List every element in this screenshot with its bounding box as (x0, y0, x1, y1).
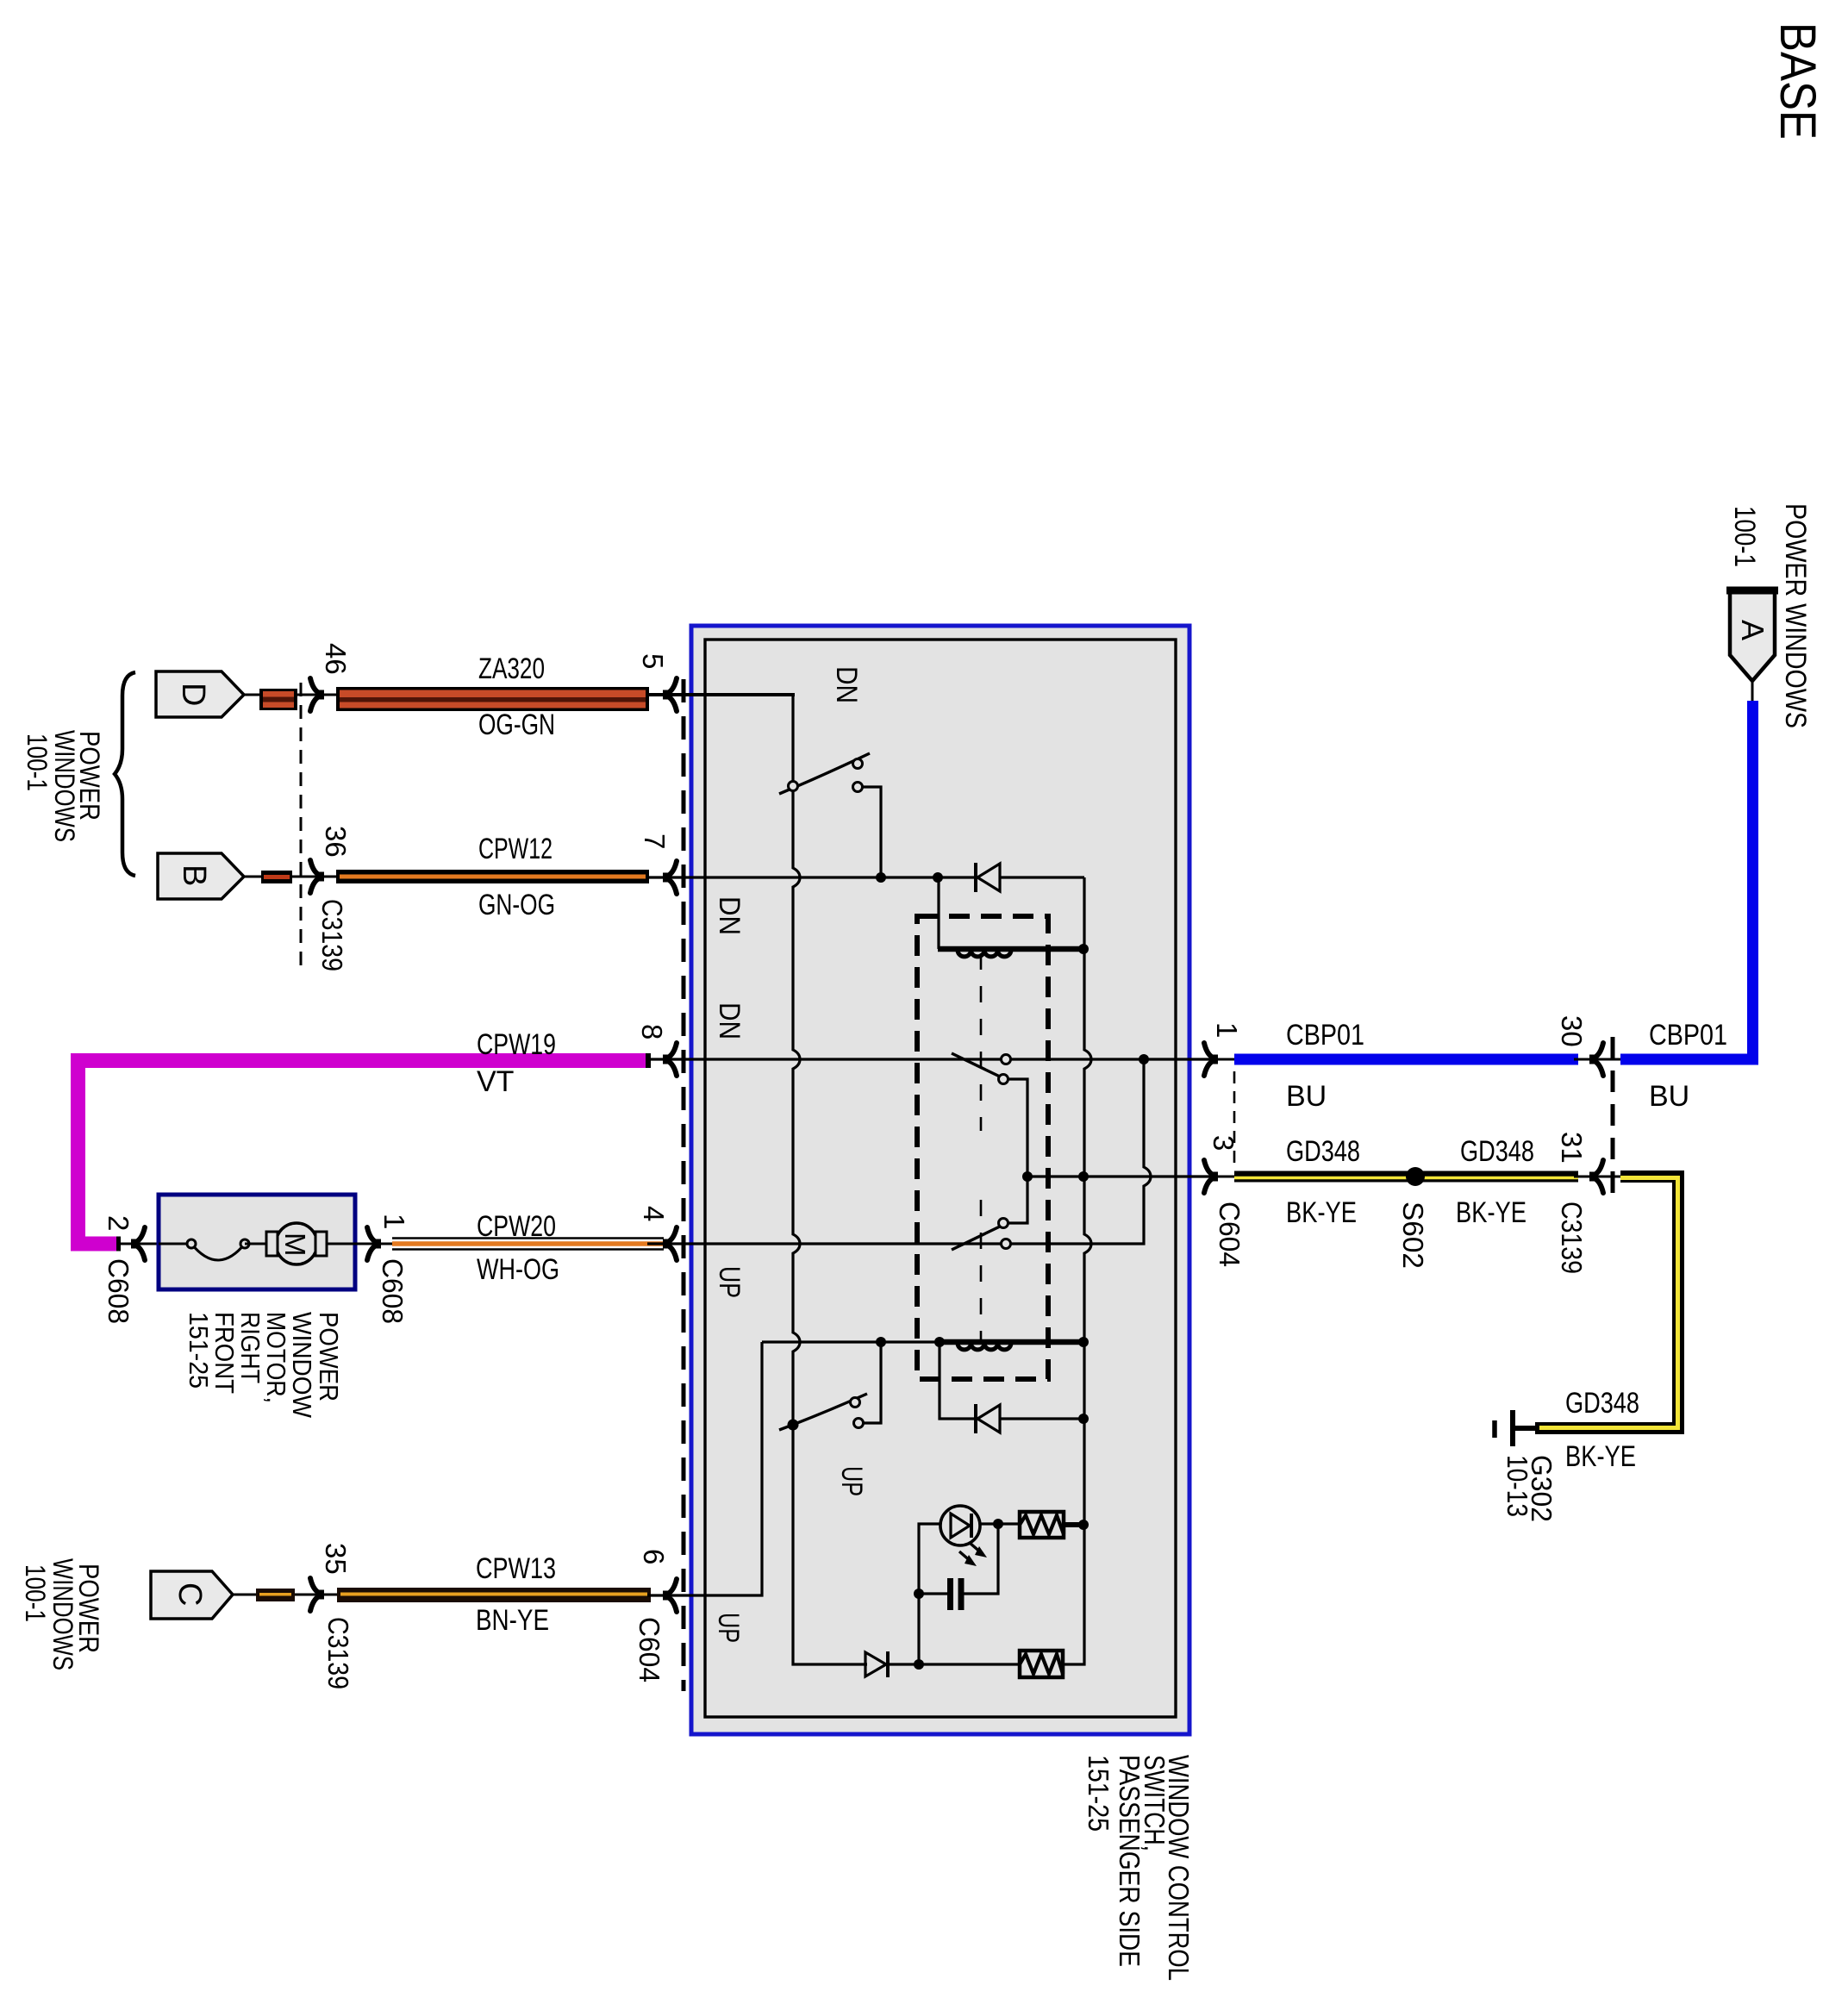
svg-text:30: 30 (1556, 1015, 1588, 1047)
svg-text:CPW19: CPW19 (477, 1028, 556, 1061)
svg-text:C604: C604 (634, 1617, 665, 1682)
svg-text:BK-YE: BK-YE (1286, 1196, 1357, 1229)
wire CPW12 stub at B (244, 876, 336, 878)
main vertical from pin 5 (hops pins 7,8,4,coil row) (793, 693, 800, 1663)
svg-text:4: 4 (638, 1206, 670, 1221)
svg-text:CPW13: CPW13 (476, 1552, 556, 1585)
DN relay flyback diode (977, 865, 1000, 890)
svg-text:A: A (1735, 620, 1770, 640)
svg-text:C604: C604 (1214, 1202, 1246, 1267)
power window motor box (159, 1195, 355, 1289)
wire ZA320 OG-GN (336, 687, 649, 711)
motor M armature (276, 1223, 317, 1264)
pin 6 arrow (663, 1591, 671, 1601)
DN relay changeover blade (952, 1053, 1002, 1077)
connector boundary C604 dashed line (682, 679, 686, 1691)
UP relay flyback diode (940, 1342, 1084, 1419)
svg-text:BU: BU (1286, 1080, 1327, 1113)
svg-text:151-25: 151-25 (1083, 1755, 1114, 1832)
pin 31 arrow (1574, 1176, 1620, 1178)
DN switch contact branch (862, 787, 881, 877)
pin 2 arrow (119, 1243, 164, 1245)
svg-text:35: 35 (320, 1543, 352, 1575)
+12V branch to UP relay contact (1010, 1059, 1151, 1244)
svg-text:DN: DN (830, 666, 863, 703)
pin 36 arrow (315, 872, 324, 882)
svg-text:10-13: 10-13 (1501, 1455, 1533, 1517)
svg-text:1: 1 (378, 1214, 410, 1229)
svg-text:31: 31 (1556, 1132, 1588, 1164)
wire sag arc between terminals (191, 1244, 245, 1260)
connector boundary C3139 dashed (left) (300, 683, 303, 971)
svg-text:C3139: C3139 (1556, 1202, 1588, 1274)
pin 8 wire through box (DN relay contact row) (647, 1058, 1218, 1060)
LED branch vertical (919, 1524, 1020, 1664)
DN manual switch (779, 753, 870, 794)
UP relay coil (938, 1339, 1082, 1345)
wire CPW12 GN-OG (336, 870, 649, 883)
wire CBP01 BU left segment (1234, 1054, 1578, 1065)
right vertical (coil/diode common to ground) (1063, 877, 1091, 1664)
UP manual switch (779, 1394, 867, 1430)
svg-text:C3139: C3139 (316, 899, 348, 971)
illumination row: bottom diode (793, 1663, 1020, 1664)
svg-text:100-1: 100-1 (1728, 506, 1761, 567)
terminal circles (187, 1239, 196, 1248)
wire CPW13 stub at C (233, 1594, 337, 1596)
motor internal wire left (159, 1243, 191, 1245)
svg-text:2: 2 (103, 1215, 134, 1231)
svg-text:GD348: GD348 (1565, 1387, 1639, 1420)
svg-text:CBP01: CBP01 (1286, 1019, 1364, 1052)
pin 7 arrow (663, 873, 671, 883)
wire CPW19 VT (78, 1061, 650, 1245)
svg-text:8: 8 (636, 1024, 668, 1039)
svg-text:C608: C608 (377, 1258, 409, 1324)
pin 46 arrow (315, 690, 324, 700)
DN relay coil (937, 877, 940, 949)
pin 1 arrow (motor) (355, 1243, 392, 1245)
svg-text:36: 36 (320, 826, 352, 858)
svg-text:S602: S602 (1397, 1202, 1429, 1269)
svg-text:D: D (175, 683, 211, 706)
window control switch box outline (691, 626, 1189, 1734)
svg-text:C608: C608 (103, 1258, 134, 1324)
wire CPW13 BN-YE (337, 1588, 651, 1602)
resistor R1 (1020, 1512, 1064, 1538)
svg-text:BN-YE: BN-YE (476, 1604, 549, 1637)
svg-text:GD348: GD348 (1460, 1135, 1534, 1168)
svg-text:ZA320: ZA320 (478, 652, 545, 685)
wire GD348 BK-YE (C3139 to G302) (1535, 1177, 1678, 1428)
pin 5 wire into box (647, 693, 795, 696)
svg-text:CBP01: CBP01 (1649, 1019, 1727, 1052)
ground G302 10-13 (1510, 1426, 1535, 1431)
pin 8 arrow (663, 1055, 671, 1064)
pin 6 wire into box (647, 1342, 762, 1595)
pin 5 arrow (663, 690, 671, 700)
svg-text:BU: BU (1649, 1080, 1689, 1113)
svg-text:GN-OG: GN-OG (478, 889, 555, 921)
connector D (156, 671, 244, 717)
svg-text:6: 6 (638, 1549, 670, 1564)
pin 3 arrow (1177, 1176, 1234, 1178)
svg-text:UP: UP (713, 1266, 746, 1298)
svg-text:7: 7 (639, 833, 671, 849)
relay outline dashed box (917, 916, 1048, 1379)
DN relay armature link (dashed) (980, 953, 983, 1131)
brace for POWER WINDOWS 100-1 (D,B) (115, 672, 135, 876)
connector boundary C3139 dashed (right) (1611, 1037, 1615, 1204)
connector C (151, 1571, 233, 1619)
svg-text:100-1: 100-1 (20, 1564, 51, 1622)
svg-text:46: 46 (320, 643, 352, 675)
connector A (POWER WINDOWS 100-1) (1730, 590, 1775, 681)
svg-text:WINDOWS: WINDOWS (49, 730, 80, 842)
svg-text:C3139: C3139 (322, 1617, 354, 1689)
svg-text:M: M (279, 1233, 311, 1257)
svg-text:VT: VT (477, 1065, 514, 1098)
svg-text:5: 5 (637, 653, 669, 669)
svg-text:151-25: 151-25 (184, 1312, 214, 1389)
svg-text:POWER: POWER (314, 1312, 344, 1401)
svg-text:DN: DN (713, 1002, 746, 1039)
pin 30 arrow (1589, 1055, 1598, 1064)
svg-text:GD348: GD348 (1286, 1135, 1360, 1168)
svg-text:POWER WINDOWS: POWER WINDOWS (1779, 503, 1812, 728)
svg-text:CPW20: CPW20 (477, 1210, 556, 1243)
wire tail from connector A (1751, 681, 1754, 702)
pin 7 wire into box (to DN relay) (647, 876, 1084, 878)
svg-text:C: C (172, 1582, 208, 1606)
svg-text:BK-YE: BK-YE (1456, 1196, 1526, 1229)
connector boundary C604 dashed (right, pins 1-3) (1233, 1071, 1236, 1165)
svg-text:PASSENGER SIDE: PASSENGER SIDE (1114, 1755, 1146, 1967)
svg-text:WH-OG: WH-OG (477, 1253, 559, 1286)
connector B (158, 853, 244, 899)
wire CBP01 BU vertical+right segment (1620, 701, 1753, 1059)
LED indicator (940, 1506, 980, 1545)
pin 4 arrow (663, 1239, 671, 1249)
svg-text:BASE: BASE (1770, 22, 1826, 140)
wire end caps (CPW19) (646, 1053, 651, 1068)
svg-text:BK-YE: BK-YE (1565, 1440, 1636, 1473)
UP relay changeover blade (952, 1226, 1002, 1250)
UP switch contact branch (863, 1342, 881, 1423)
svg-text:CPW12: CPW12 (478, 833, 553, 865)
brushes (266, 1232, 278, 1256)
pin 35 arrow (315, 1590, 324, 1600)
resistor R2 (1020, 1651, 1063, 1677)
svg-text:OG-GN: OG-GN (478, 708, 555, 741)
UP relay armature link (dashed) (980, 1200, 983, 1339)
capacitor C1 (919, 1592, 949, 1595)
UP coil feed row (762, 1340, 1082, 1343)
svg-text:1: 1 (1211, 1022, 1243, 1038)
svg-text:UP: UP (712, 1613, 745, 1643)
pin 4 wire into box (UP relay contact row) (647, 1242, 1006, 1245)
splice S602 (1406, 1167, 1425, 1186)
svg-text:UP: UP (835, 1466, 868, 1496)
wire ZA320 stub at D (244, 694, 336, 696)
svg-text:100-1: 100-1 (22, 733, 53, 791)
svg-text:DN: DN (713, 896, 746, 935)
pin 3 wire inside box (1027, 1175, 1218, 1177)
svg-text:WINDOWS: WINDOWS (47, 1558, 78, 1670)
wire GD348 BK-YE (pin3 to S602 to C3139) (1234, 1171, 1578, 1183)
wire CPW20 WH-OG (392, 1237, 664, 1239)
pin 1 arrow (1177, 1058, 1234, 1061)
svg-text:B: B (176, 865, 212, 886)
